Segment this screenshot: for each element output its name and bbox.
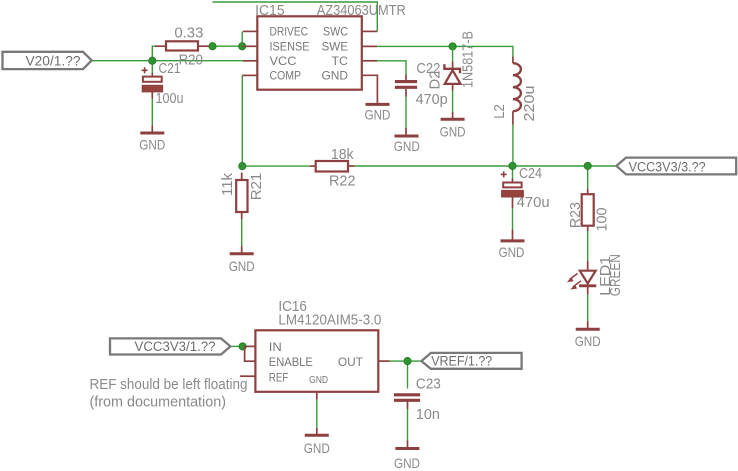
wire C23 to GND (407, 409, 409, 441)
resistor R21 (236, 173, 247, 220)
svg-text:V20/1.??: V20/1.?? (26, 53, 81, 68)
wire D2 anode to GND (452, 90, 454, 113)
wire IC16 OUT to VREF port (389, 360, 421, 362)
svg-text:GND: GND (440, 124, 466, 140)
ground IC15 GND pin (366, 103, 390, 106)
diode D2 schottky (444, 62, 460, 91)
node junction OUT at C23 (404, 358, 411, 365)
svg-text:GND: GND (322, 69, 349, 83)
svg-text:R23: R23 (568, 202, 584, 228)
node port VCC3V3/1.?? (110, 338, 230, 354)
svg-text:ISENSE: ISENSE (270, 39, 310, 53)
wire C22 to GND (405, 96, 407, 129)
svg-text:1N5817-B: 1N5817-B (460, 31, 476, 88)
svg-text:470u: 470u (517, 195, 550, 211)
wire SWE node down to D2 (452, 46, 454, 61)
node junction SWE at D2 (449, 43, 456, 50)
svg-text:220u: 220u (522, 86, 538, 122)
ground C21 (151, 126, 153, 134)
op-amp U= IC15 converter box (242, 16, 377, 104)
svg-text:C21: C21 (159, 61, 181, 77)
svg-text:VCC3V3/3.??: VCC3V3/3.?? (629, 159, 706, 174)
node junction ISENSE / DRIVEC (239, 43, 246, 50)
node junction IC16 IN/ENABLE (239, 343, 246, 350)
svg-text:(from documentation): (from documentation) (90, 395, 227, 411)
svg-text:R20: R20 (179, 53, 203, 69)
svg-text:R21: R21 (249, 173, 265, 201)
wire COMP down to feedback node (241, 75, 243, 166)
wire V20 input net (92, 60, 244, 62)
ground C23 (407, 441, 409, 449)
svg-text:100: 100 (594, 208, 610, 232)
wire OUT node down to C23 (407, 361, 409, 388)
svg-text:470p: 470p (416, 92, 448, 108)
node junction R20 right / top net (209, 43, 216, 50)
wire TC to C22 (377, 61, 406, 75)
wire output node down to C24 (512, 166, 514, 179)
LED LED1 (570, 261, 597, 295)
svg-text:GND: GND (499, 244, 525, 260)
svg-text:VCC3V3/1.??: VCC3V3/1.?? (135, 339, 216, 354)
inductor L2 (513, 57, 521, 125)
svg-text:OUT: OUT (338, 355, 364, 369)
svg-text:COMP: COMP (270, 69, 302, 83)
svg-text:D2: D2 (428, 71, 444, 90)
node junction on V20 net at C21 (149, 57, 156, 64)
capacitor C21 (142, 67, 163, 98)
svg-text:LM4120AIM5-3.0: LM4120AIM5-3.0 (278, 312, 381, 328)
wire R23 to LED1 (587, 231, 589, 261)
svg-text:GND: GND (229, 258, 255, 274)
wire R21 to GND (241, 219, 243, 246)
wire C21 to GND (151, 98, 153, 126)
svg-text:100u: 100u (156, 91, 184, 107)
svg-text:VCC: VCC (270, 54, 297, 68)
svg-text:IC15: IC15 (255, 3, 285, 19)
svg-text:REF: REF (269, 371, 289, 385)
ground D2 (452, 112, 454, 119)
ground IC16 (316, 428, 318, 435)
svg-text:GND: GND (575, 333, 601, 349)
svg-text:GND: GND (394, 455, 420, 471)
svg-text:0.33: 0.33 (174, 26, 203, 42)
capacitor C23 (394, 395, 420, 409)
wire V20 net down to C21 (151, 61, 153, 73)
svg-text:GND: GND (394, 138, 420, 154)
node port VCC3V3/3.?? (616, 158, 736, 175)
wire R20 right to ISENSE junction (205, 45, 242, 47)
wire ISENSE junction up to DRIVEC (241, 31, 243, 46)
svg-text:18k: 18k (331, 147, 354, 163)
ground C22 (405, 128, 407, 136)
svg-text:L2: L2 (492, 104, 508, 119)
svg-text:GND: GND (304, 440, 330, 456)
svg-text:C24: C24 (519, 166, 542, 182)
svg-text:AZ34063UMTR: AZ34063UMTR (317, 3, 406, 19)
wire top net from ISENSE junction to SWC (213, 2, 378, 31)
node port V20/1.?? (3, 52, 92, 69)
svg-text:11k: 11k (220, 172, 236, 196)
resistor R23 (582, 189, 594, 231)
capacitor C22 (395, 75, 417, 97)
capacitor C24 (501, 171, 524, 208)
svg-text:REF should be left floating: REF should be left floating (90, 377, 248, 393)
resistor R22 (310, 161, 355, 172)
svg-text:GND: GND (309, 374, 328, 386)
wire SWE to diode and L2 (377, 46, 513, 56)
svg-text:IN: IN (269, 340, 282, 354)
svg-text:DRIVEC: DRIVEC (270, 25, 309, 39)
svg-text:R22: R22 (329, 173, 356, 189)
wire LED1 to GND (587, 294, 589, 322)
ground C24 (512, 230, 514, 241)
svg-text:GND: GND (365, 107, 391, 123)
op-amp U= IC16 regulator box (240, 330, 390, 399)
svg-text:GND: GND (139, 137, 165, 153)
svg-text:ENABLE: ENABLE (269, 355, 313, 369)
node junction output at C24 (509, 162, 516, 169)
wire feedback node to R22 left (242, 165, 310, 167)
svg-text:VREF/1.??: VREF/1.?? (431, 353, 492, 368)
resistor R20 (155, 41, 209, 50)
svg-text:C23: C23 (416, 377, 441, 393)
svg-text:SWC: SWC (323, 25, 348, 39)
svg-text:10n: 10n (416, 407, 440, 423)
wire output node down to R23 (587, 166, 589, 189)
node junction output at R23 (584, 162, 591, 169)
svg-text:SWE: SWE (322, 39, 349, 53)
wire L2 bottom to output node (512, 125, 514, 166)
wire IC16 GND pin to GND (316, 399, 318, 428)
svg-text:GREEN: GREEN (608, 254, 624, 296)
svg-text:TC: TC (332, 54, 349, 68)
ground LED1 (587, 321, 589, 329)
wire R22 right to VCC3V3 port (354, 165, 616, 167)
wire from V20 net up to R20 left (152, 46, 156, 61)
wire VCC3V3 port to IC16 IN (230, 345, 245, 347)
wire C24 to GND (512, 208, 514, 230)
node port VREF/1.?? (421, 353, 521, 369)
node junction feedback R21/R22 (239, 163, 246, 170)
ground R21 (241, 246, 243, 254)
